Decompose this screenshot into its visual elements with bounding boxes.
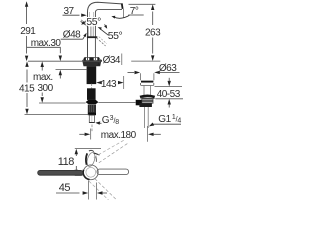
svg-text:263: 263 [145, 28, 161, 39]
svg-text:291: 291 [20, 26, 36, 37]
svg-text:55°: 55° [108, 30, 123, 42]
svg-text:415: 415 [19, 83, 35, 94]
svg-text:37: 37 [64, 6, 75, 17]
svg-text:Ø63: Ø63 [159, 63, 177, 74]
svg-text:55°: 55° [86, 16, 101, 28]
svg-text:45: 45 [59, 182, 71, 194]
svg-text:143: 143 [101, 79, 117, 90]
svg-text:40-53: 40-53 [157, 89, 181, 100]
svg-text:max.180: max.180 [101, 130, 137, 141]
svg-text:max.30: max.30 [31, 38, 62, 49]
svg-text:max.: max. [33, 72, 53, 83]
svg-text:Ø34: Ø34 [103, 55, 121, 66]
svg-text:7°: 7° [130, 6, 139, 17]
svg-text:Ø48: Ø48 [63, 30, 81, 41]
svg-text:300: 300 [38, 83, 54, 94]
svg-text:118: 118 [58, 156, 74, 168]
